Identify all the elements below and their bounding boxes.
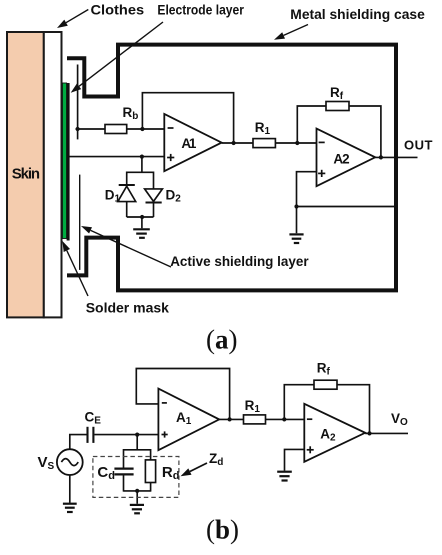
leader arrow to solder mask [62,241,88,296]
wire Rf (b) feedback riser [284,385,314,420]
label Rd [162,464,180,482]
active shielding layer line [79,175,81,270]
label R1 [255,120,271,137]
wire Zd bottom rail [124,490,151,492]
junction Zd tap node [135,433,139,437]
wire Rf (b) to A2 output [337,385,370,434]
wire A1 feedback loop [142,93,233,143]
junction A1 output node [232,141,236,145]
resistor Rf (b) [314,380,337,389]
wire Rb to A1 inverting input [127,128,165,130]
pin minus A2 (b) [307,418,312,420]
source Vs [57,449,83,475]
wire diode top rail [127,171,154,173]
pin plus A2 (b) [307,446,314,453]
capacitor CE [88,427,94,443]
op-amp A1 (b) [158,389,219,451]
pin plus A2 [318,170,325,177]
wire electrode to A1 non-inverting input [69,156,164,158]
wire Cd top lead [123,449,125,468]
wire Cd bottom lead [123,475,125,492]
metal shielding case outline [67,45,396,291]
wire D2 bottom lead [153,203,155,218]
svg-text:A1: A1 [181,136,196,151]
pin plus A1 (b) [162,431,168,437]
svg-text:A2: A2 [333,152,349,167]
resistor R1 [253,139,275,148]
label Rf (b) [317,361,331,378]
junction A2 (b) output node [367,431,371,435]
wire Vs to CE [70,435,87,450]
electrode connection stub wire [77,65,79,140]
wire diode clamp stem [141,157,143,173]
label Clothes [91,2,145,18]
resistor Rd [145,460,155,483]
label Rb [123,105,139,122]
pin minus A1 (b) [162,402,167,404]
wire diode ground stem [141,217,143,228]
junction Rf (b) tap node [282,417,286,421]
electrode layer green strip [62,83,66,239]
ground diode clamp [133,229,150,238]
capacitor Cd [114,469,133,475]
svg-text:(a): (a) [206,325,238,355]
leader arrow to clothes layer [57,10,88,29]
wire D1 bottom lead [126,202,128,217]
wire diode bottom rail [127,215,154,219]
label Vs [38,454,55,472]
label Metal shielding case [290,6,425,22]
wire D2 top lead [153,172,155,189]
diode D1 [118,185,136,202]
wire A2 output to OUT [375,156,417,158]
junction Zd ground node [135,489,139,493]
resistor Rf [326,102,349,111]
wire Rd top lead [150,449,152,460]
wire A2 (b) output to Vo [365,432,408,434]
leader arrow Zd [181,463,208,476]
wire Rf feedback riser [297,106,326,143]
pin minus A1 [168,127,174,129]
ground Zd [130,505,144,513]
caption (a) [206,325,238,355]
diode D2 [145,189,163,203]
label Skin [12,166,40,183]
wire electrode stub to Rb [76,128,105,130]
wire A2 (b) non-inverting input [285,449,305,470]
label Solder mask [86,300,169,316]
label Cd [97,464,115,482]
label Electrode layer [157,2,244,18]
leader arrow to electrode layer [71,22,163,93]
wire Vs ground lead [69,475,71,503]
wire R1 to A2 (b) inverting input [266,418,305,420]
junction A1 feedback node [140,127,144,131]
svg-text:Clothes: Clothes [91,2,145,18]
wire A1 (b) output to R1 [219,418,243,420]
wire Rf to A2 output [349,106,381,157]
wire D1 top lead [126,172,128,186]
junction case ground node [294,204,298,208]
label D2 [166,188,182,205]
label Rf [330,85,344,102]
svg-text:Solder mask: Solder mask [86,300,169,316]
pin plus A1 [167,154,174,161]
svg-text:Electrode layer: Electrode layer [157,2,244,18]
wire CE to A1 non-inverting input [94,434,158,436]
wire ground node to case [297,206,396,208]
wire Zd ground stem [136,491,138,504]
label R1 (b) [245,398,261,415]
wire R1 to A2 inverting input [275,142,316,144]
leader arrow to active shielding layer [81,226,171,267]
impedance box Zd dashed [93,457,179,498]
wire Zd stem [136,435,138,450]
ground A2 reference [289,234,303,243]
electrode black bar [67,83,70,241]
ground Vs [63,504,77,512]
label D1 [105,188,121,205]
op-amp A2 (b) [304,404,365,462]
wire A2 non-inverting input [297,172,317,234]
wire Zd top rail [124,449,151,451]
svg-text:Metal shielding case: Metal shielding case [290,6,425,22]
wire Rd bottom lead [150,483,152,492]
junction A2 output node [379,155,383,159]
resistor Rb [105,125,127,134]
label CE [85,410,102,427]
junction electrode stub node [76,127,80,131]
op-amp A2 [317,129,376,187]
wire A1 output to R1 [222,142,253,144]
pin minus A2 [319,141,325,143]
label OUT [404,138,432,153]
svg-text:OUT: OUT [404,138,432,153]
resistor R1 (b) [244,415,266,424]
junction Rf tap node [295,141,299,145]
op-amp A1 [164,114,221,171]
svg-text:(b): (b) [206,515,239,545]
label Vo [391,411,408,428]
label Active shielding layer [170,253,309,269]
wire A1 (b) feedback loop [136,369,229,420]
label Zd [209,451,223,468]
ground A2 (b) [277,472,292,481]
junction A1 (b) output node [228,417,232,421]
skin block [7,32,44,317]
clothes layer block [44,32,62,317]
caption (b) [206,515,239,545]
junction diode clamp node [140,155,144,159]
svg-text:Skin: Skin [12,166,40,183]
svg-text:Active shielding layer: Active shielding layer [170,253,309,269]
leader arrow to case [274,25,308,40]
